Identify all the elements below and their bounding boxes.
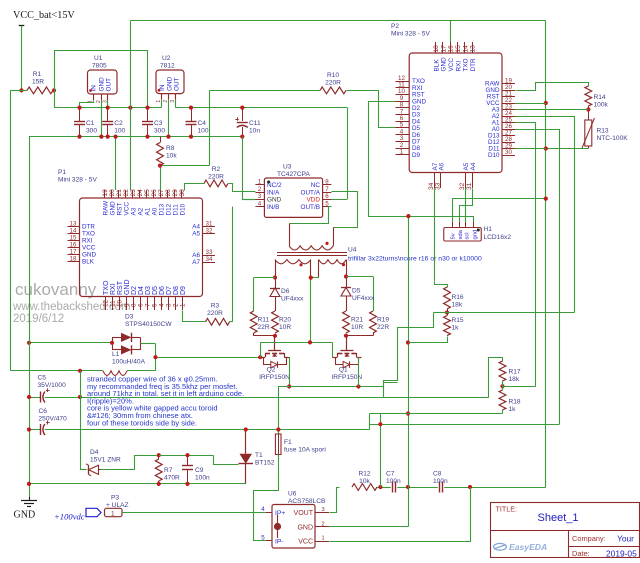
svg-text:8: 8 bbox=[325, 179, 329, 186]
wire divider mid left bbox=[434, 312, 448, 314]
wire D3 node to Q2 drain bbox=[156, 357, 261, 359]
svg-text:2: 2 bbox=[173, 303, 180, 307]
svg-text:C7: C7 bbox=[386, 471, 395, 478]
junction center-tap rail bbox=[308, 340, 312, 344]
svg-text:25: 25 bbox=[144, 189, 151, 197]
svg-text:STPS40150CW: STPS40150CW bbox=[125, 321, 172, 328]
svg-text:VCC: VCC bbox=[82, 245, 96, 252]
svg-text:R8: R8 bbox=[166, 145, 175, 152]
junction Q2 gate node bbox=[273, 334, 277, 338]
svg-text:C8: C8 bbox=[433, 471, 442, 478]
transformer U4 primary winding bbox=[289, 223, 333, 250]
svg-text:Date:: Date: bbox=[572, 549, 590, 558]
svg-text:D9: D9 bbox=[412, 152, 421, 159]
svg-text:1: 1 bbox=[321, 536, 324, 542]
capacitor C4 bbox=[186, 108, 209, 137]
svg-text:1: 1 bbox=[258, 179, 262, 186]
svg-text:2: 2 bbox=[258, 186, 262, 193]
svg-text:R12: R12 bbox=[358, 471, 370, 478]
title block company row bbox=[572, 534, 634, 544]
svg-text:300: 300 bbox=[86, 128, 97, 135]
title block date row bbox=[572, 549, 637, 559]
resistor R2 bbox=[204, 166, 228, 187]
svg-text:300: 300 bbox=[154, 128, 165, 135]
wire +100V bus bbox=[45, 429, 370, 431]
svg-text:OUT/A: OUT/A bbox=[300, 189, 320, 196]
wire output line y=487 bbox=[377, 487, 546, 489]
capacitor C11 (polarized) bbox=[235, 108, 261, 137]
wire ground line y=483.9 bbox=[29, 483, 246, 485]
svg-text:100n: 100n bbox=[433, 478, 448, 485]
note text block bbox=[87, 375, 244, 428]
svg-text:D9: D9 bbox=[180, 286, 187, 295]
resistor R3 bbox=[206, 303, 230, 326]
junction T1 anode bbox=[244, 427, 248, 431]
wire top rail to P2 VCC pin 16 bbox=[450, 21, 452, 42]
svg-text:17: 17 bbox=[70, 248, 77, 255]
svg-text:7: 7 bbox=[325, 186, 329, 193]
svg-text:220R: 220R bbox=[207, 310, 223, 317]
svg-text:10k: 10k bbox=[166, 153, 177, 160]
wire F1 to U6 IP- bbox=[254, 455, 279, 541]
junction R14 bottom / A3 bbox=[586, 107, 590, 111]
svg-text:DTR: DTR bbox=[470, 58, 477, 72]
thermistor R13 NTC-100K bbox=[579, 118, 629, 149]
wire ground bus y=136.6 bbox=[29, 136, 242, 138]
svg-text:32: 32 bbox=[206, 227, 213, 234]
svg-text:11: 11 bbox=[109, 300, 116, 307]
svg-text:100: 100 bbox=[198, 128, 209, 135]
svg-text:100k: 100k bbox=[594, 102, 609, 109]
svg-text:+ ULAZ: + ULAZ bbox=[106, 502, 129, 509]
svg-text:fuse 10A spori: fuse 10A spori bbox=[284, 447, 326, 454]
resistor R20 bbox=[272, 311, 292, 333]
wire P2 GND9 to LCD gnd bbox=[369, 102, 474, 217]
svg-text:C3: C3 bbox=[154, 120, 163, 127]
svg-text:23: 23 bbox=[130, 189, 137, 197]
wire to R11 top bbox=[254, 278, 276, 312]
wire R18 bottom bbox=[502, 410, 504, 414]
svg-text:7805: 7805 bbox=[92, 63, 107, 70]
svg-text:6: 6 bbox=[138, 303, 145, 307]
svg-text:13: 13 bbox=[470, 45, 477, 53]
junction ground bus x=191 bbox=[189, 135, 193, 139]
svg-text:8: 8 bbox=[130, 303, 137, 307]
wire R17-R18 bbox=[502, 381, 504, 390]
wire rail to Q1 drain bbox=[332, 342, 334, 357]
svg-text:R21: R21 bbox=[351, 317, 363, 324]
svg-text:GND: GND bbox=[441, 57, 448, 72]
svg-text:16: 16 bbox=[448, 45, 455, 53]
svg-text:D5: D5 bbox=[352, 288, 361, 295]
svg-text:GND: GND bbox=[14, 510, 36, 521]
svg-text:TXO: TXO bbox=[82, 231, 95, 238]
junction C7 right bbox=[406, 485, 410, 489]
svg-text:GND: GND bbox=[124, 279, 131, 295]
transistor Q1 IRFP150N bbox=[331, 336, 362, 381]
svg-text:RXI: RXI bbox=[82, 238, 93, 245]
svg-text:Sheet_1: Sheet_1 bbox=[538, 512, 579, 524]
svg-text:R10: R10 bbox=[327, 72, 339, 79]
wire gate line to T1 bbox=[159, 456, 239, 465]
svg-text:33: 33 bbox=[434, 182, 441, 190]
svg-text:14: 14 bbox=[462, 45, 469, 53]
junction D6 top bbox=[273, 275, 277, 279]
module P1 Mini 328 - 5V bbox=[58, 169, 215, 310]
wire R2 to P1 pin 30 bbox=[185, 184, 205, 191]
wire P1 D9 to R3 bbox=[183, 311, 206, 322]
svg-text:14: 14 bbox=[70, 227, 77, 234]
wire R15 bottom to rail bbox=[409, 337, 448, 343]
wire OUT/B to primary left bbox=[290, 207, 332, 224]
svg-text:OUT: OUT bbox=[174, 77, 181, 91]
svg-text:18: 18 bbox=[433, 45, 440, 53]
svg-text:C6: C6 bbox=[39, 408, 48, 415]
svg-text:UF4xxx: UF4xxx bbox=[281, 296, 304, 303]
diode D4 15V1 ZNR (zener) bbox=[80, 449, 121, 476]
svg-text:DTR: DTR bbox=[82, 224, 95, 231]
resistor R21 bbox=[343, 311, 364, 333]
svg-text:2019/6/12: 2019/6/12 bbox=[13, 313, 64, 325]
svg-text:RST: RST bbox=[116, 203, 123, 216]
wire Q2 source down bbox=[289, 357, 291, 387]
wire A1 row bbox=[515, 122, 536, 124]
junction Q2 source bbox=[287, 384, 291, 388]
svg-text:+100vdc: +100vdc bbox=[54, 512, 85, 522]
driver U3 TC427CPA bbox=[255, 164, 331, 218]
EasyEDA logo bbox=[494, 542, 548, 552]
svg-text:H1: H1 bbox=[484, 226, 493, 233]
junction Q2 drain bbox=[258, 355, 262, 359]
svg-text:trifillar 3x22turns\ncore r16: trifillar 3x22turns\ncore r16 or n30 or … bbox=[348, 256, 482, 263]
wire R2 to U3 IN/A bbox=[229, 184, 256, 192]
junction ground bus x=168.5 bbox=[166, 135, 170, 139]
resistor R1 bbox=[22, 71, 55, 94]
wire U1 GND to ground bus bbox=[101, 100, 103, 137]
wire L1 node rail down bbox=[80, 371, 82, 470]
junction rail/R18 line bbox=[406, 411, 410, 415]
wire sense jog bbox=[384, 383, 398, 398]
net name VCC_bat<15V bbox=[13, 10, 75, 21]
svg-text:7812: 7812 bbox=[160, 63, 175, 70]
junction C9 bottom bbox=[185, 482, 189, 486]
svg-text:10n: 10n bbox=[249, 128, 260, 135]
capacitor C9 bbox=[182, 455, 210, 484]
wire R3 to U3 IN/B rail bbox=[230, 207, 233, 322]
wire A7 column down bbox=[434, 188, 436, 285]
wire VCC rail right x=545.8 bbox=[545, 21, 547, 487]
svg-text:GND: GND bbox=[82, 252, 96, 259]
capacitor C7 bbox=[386, 471, 401, 493]
connector H1 LCD16x2 bbox=[444, 222, 512, 241]
svg-text:12: 12 bbox=[102, 299, 109, 307]
svg-text:U3: U3 bbox=[283, 164, 292, 171]
wire sense to R17 top bbox=[489, 358, 503, 398]
svg-text:R18: R18 bbox=[509, 399, 521, 406]
svg-text:D2: D2 bbox=[131, 286, 138, 295]
wire D4 to R7 top bbox=[101, 456, 157, 470]
junction Q1 gate node bbox=[344, 334, 348, 338]
module P2 Mini 328 - 5V bbox=[391, 23, 515, 190]
svg-text:GND: GND bbox=[109, 201, 116, 216]
junction ground rail bbox=[27, 482, 31, 486]
svg-text:C2: C2 bbox=[114, 120, 123, 127]
svg-text:IRFP150N: IRFP150N bbox=[331, 374, 362, 381]
inductor L1 100uH/40A bbox=[11, 351, 156, 375]
junction A0 line bbox=[378, 422, 382, 426]
wire center tap down bbox=[311, 278, 319, 343]
svg-text:TC427CPA: TC427CPA bbox=[277, 171, 310, 178]
svg-text:LCD16x2: LCD16x2 bbox=[484, 234, 512, 241]
svg-text:BLK: BLK bbox=[433, 59, 440, 72]
svg-text:U4: U4 bbox=[348, 247, 357, 254]
svg-text:100n: 100n bbox=[195, 474, 210, 481]
svg-text:A3: A3 bbox=[130, 207, 137, 215]
svg-text:OUT/B: OUT/B bbox=[300, 204, 320, 211]
svg-text:four of these toroids side by: four of these toroids side by side. bbox=[87, 418, 197, 427]
svg-text:A1: A1 bbox=[144, 207, 151, 215]
svg-text:33: 33 bbox=[206, 249, 213, 256]
svg-text:5: 5 bbox=[152, 303, 159, 307]
resistor R7 bbox=[155, 455, 180, 484]
svg-text:ACS758LCB: ACS758LCB bbox=[288, 498, 326, 505]
svg-text:R16: R16 bbox=[452, 294, 464, 301]
resistor R18 bbox=[499, 390, 521, 413]
transformer U4 core bbox=[277, 253, 347, 256]
title block TITLE label bbox=[496, 505, 518, 514]
svg-text:D3: D3 bbox=[125, 314, 134, 321]
junction ground bus x=101.4 bbox=[99, 135, 103, 139]
wire VCC22 row bbox=[515, 103, 546, 105]
svg-text:L1: L1 bbox=[112, 351, 120, 358]
svg-text:VCC: VCC bbox=[448, 58, 455, 72]
svg-text:NC: NC bbox=[311, 182, 321, 189]
svg-text:R20: R20 bbox=[279, 317, 291, 324]
svg-text:6: 6 bbox=[325, 193, 329, 200]
svg-text:IP-: IP- bbox=[275, 539, 284, 546]
svg-text:C9: C9 bbox=[195, 467, 204, 474]
svg-text:A0: A0 bbox=[151, 207, 158, 215]
svg-text:C4: C4 bbox=[198, 120, 207, 127]
svg-text:1: 1 bbox=[180, 303, 187, 307]
svg-text:P1: P1 bbox=[58, 169, 66, 176]
svg-text:BT152: BT152 bbox=[255, 460, 275, 467]
svg-text:A7: A7 bbox=[192, 259, 200, 266]
title block frame bbox=[491, 503, 640, 558]
capacitor C1 bbox=[74, 108, 97, 137]
svg-text:R7: R7 bbox=[164, 467, 173, 474]
svg-text:22R: 22R bbox=[377, 324, 389, 331]
svg-text:2: 2 bbox=[321, 521, 324, 527]
svg-text:1k: 1k bbox=[509, 406, 517, 413]
wire source stair up bbox=[384, 313, 434, 387]
svg-text:3: 3 bbox=[166, 303, 173, 307]
svg-text:A6: A6 bbox=[192, 252, 200, 259]
diode D6 UF4xxx bbox=[270, 278, 304, 312]
svg-text:RXI: RXI bbox=[455, 61, 462, 72]
junction Q1 source bbox=[356, 384, 360, 388]
svg-text:GND: GND bbox=[267, 197, 282, 204]
wire A0 row bbox=[515, 129, 560, 131]
junction C4 top bbox=[189, 106, 193, 110]
wire U6 VCC to output line bbox=[330, 488, 471, 542]
resistor R10 bbox=[320, 72, 346, 94]
junction C-row x=130.4 bbox=[128, 106, 132, 110]
junction D3/L1/Q2 bbox=[153, 355, 157, 359]
junction ground bus x=147.5 bbox=[145, 135, 149, 139]
svg-text:34: 34 bbox=[206, 256, 213, 263]
resistor R17 bbox=[499, 361, 521, 383]
wire A2 row bbox=[515, 116, 575, 118]
svg-text:22: 22 bbox=[123, 189, 130, 197]
regulator U2 7812 bbox=[156, 55, 184, 103]
svg-text:R17: R17 bbox=[509, 369, 521, 376]
junction L1 input bbox=[78, 369, 82, 373]
svg-text:BLK: BLK bbox=[82, 259, 95, 266]
svg-text:U6: U6 bbox=[288, 491, 297, 498]
junction R12 right bbox=[378, 485, 382, 489]
junction C-row x=147.5 bbox=[145, 106, 149, 110]
svg-text:U2: U2 bbox=[162, 55, 171, 62]
svg-text:Mini 328 - 5V: Mini 328 - 5V bbox=[391, 31, 430, 38]
wire divider mid to A1 bbox=[503, 123, 536, 387]
svg-text:15: 15 bbox=[70, 234, 77, 241]
svg-text:4: 4 bbox=[159, 303, 166, 307]
svg-text:GND: GND bbox=[167, 76, 174, 91]
svg-text:4: 4 bbox=[258, 200, 262, 207]
transformer U4 secondary left winding bbox=[275, 260, 311, 278]
svg-text:21: 21 bbox=[116, 189, 123, 197]
svg-text:19: 19 bbox=[102, 189, 109, 197]
svg-text:D11: D11 bbox=[172, 204, 179, 216]
wire to R16 top bbox=[435, 282, 448, 288]
junction C5 right bbox=[78, 395, 82, 399]
svg-text:IN/A: IN/A bbox=[267, 189, 280, 196]
svg-text:OUT: OUT bbox=[106, 78, 113, 92]
svg-text:RST: RST bbox=[117, 280, 124, 295]
svg-text:Q1: Q1 bbox=[339, 367, 348, 374]
svg-text:R15: R15 bbox=[452, 317, 464, 324]
svg-text:sda: sda bbox=[458, 229, 464, 239]
svg-text:A5: A5 bbox=[192, 231, 200, 238]
svg-text:470R: 470R bbox=[164, 474, 180, 481]
svg-text:18: 18 bbox=[70, 255, 77, 262]
junction C5 left bbox=[27, 395, 31, 399]
wire R14 to R13 bbox=[588, 106, 590, 120]
wire R10 to P2 D5 bbox=[347, 91, 396, 128]
wire ground rail x=408 bbox=[408, 216, 410, 527]
resistor R11 bbox=[250, 311, 270, 333]
resistor R16 bbox=[444, 287, 464, 309]
wire left rail x=10.6 bbox=[11, 90, 22, 370]
svg-text:27: 27 bbox=[158, 189, 165, 197]
junction C9 top bbox=[185, 453, 189, 457]
wire OUT/A to primary right bbox=[332, 192, 358, 228]
svg-text:250V/470: 250V/470 bbox=[39, 416, 68, 423]
svg-text:3: 3 bbox=[258, 193, 262, 200]
svg-text:3: 3 bbox=[321, 507, 324, 513]
wire to U3 GND bbox=[242, 199, 256, 201]
wire down to R12 node bbox=[380, 414, 382, 488]
wire A0 column down bbox=[559, 129, 561, 424]
wire rail to P1 pin 23 bbox=[130, 108, 132, 190]
wire LCD gnd lead bbox=[473, 216, 475, 222]
transformer U4 secondary right winding bbox=[319, 260, 347, 278]
svg-text:R3: R3 bbox=[211, 303, 220, 310]
wire U2 IN down bbox=[161, 100, 163, 108]
wire R8 to R10 row bbox=[160, 90, 320, 165]
svg-text:U1: U1 bbox=[94, 55, 103, 62]
resistor R15 bbox=[444, 309, 464, 336]
svg-text:10R: 10R bbox=[351, 324, 363, 331]
svg-text:UF4xxx: UF4xxx bbox=[352, 295, 375, 302]
svg-text:EasyEDA: EasyEDA bbox=[509, 542, 547, 552]
junction F1 top bbox=[276, 427, 280, 431]
svg-text:TXO: TXO bbox=[103, 280, 110, 295]
svg-text:100n: 100n bbox=[386, 478, 401, 485]
wire drain rail bbox=[260, 342, 332, 357]
svg-text:26: 26 bbox=[151, 189, 158, 197]
svg-text:35V/1000: 35V/1000 bbox=[38, 382, 67, 389]
svg-text:10k: 10k bbox=[359, 478, 370, 485]
capacitor C2 bbox=[102, 108, 125, 137]
junction divider mid R16/R15 bbox=[445, 310, 449, 314]
junction R7 top bbox=[157, 453, 161, 457]
svg-text:TITLE:: TITLE: bbox=[496, 505, 518, 514]
svg-text:220R: 220R bbox=[325, 80, 341, 87]
junction C11 top bbox=[240, 106, 244, 110]
junction R15 bottom rail bbox=[406, 340, 410, 344]
svg-text:5: 5 bbox=[261, 535, 265, 542]
junction R8 bottom bbox=[158, 164, 162, 168]
junction C11 bottom bbox=[240, 135, 244, 139]
svg-text:A6: A6 bbox=[438, 162, 445, 170]
svg-text:GND: GND bbox=[99, 77, 106, 92]
wire rail to D3 bbox=[29, 342, 112, 344]
junction rail VCC22 row bbox=[544, 101, 548, 105]
svg-text:D7: D7 bbox=[166, 286, 173, 295]
wire R13 bottom to rail bbox=[546, 146, 589, 149]
junction divider mid R17/R18 bbox=[500, 384, 504, 388]
svg-text:100uH/40A: 100uH/40A bbox=[112, 359, 146, 366]
svg-text:9: 9 bbox=[123, 303, 130, 307]
connector P3 +ULAZ bbox=[54, 495, 266, 522]
title block sheet name bbox=[538, 512, 579, 524]
resistor R14 bbox=[585, 86, 609, 109]
wire R11 bottom to gate node bbox=[254, 333, 276, 336]
svg-text:D13: D13 bbox=[158, 203, 165, 215]
diode D5 UF4xxx bbox=[341, 277, 375, 312]
svg-text:D4: D4 bbox=[138, 286, 145, 295]
svg-text:R14: R14 bbox=[594, 94, 606, 101]
svg-text:A2: A2 bbox=[137, 207, 144, 215]
wire source bus to F1 bbox=[279, 387, 384, 430]
svg-text:1k: 1k bbox=[452, 325, 460, 332]
wire U1 IN to C1 node bbox=[80, 101, 94, 108]
svg-text:T1: T1 bbox=[255, 452, 263, 459]
wire R8 node to P1 pin 27 bbox=[160, 166, 162, 190]
resistor R12 bbox=[352, 471, 377, 491]
resistor R8 bbox=[157, 137, 178, 166]
junction R7 bottom bbox=[157, 482, 161, 486]
wire D11 row bbox=[515, 148, 546, 150]
svg-text:1: 1 bbox=[111, 511, 115, 518]
svg-text:A4: A4 bbox=[192, 224, 200, 231]
wire LCD scl to A5 bbox=[465, 188, 467, 222]
svg-text:IP+: IP+ bbox=[275, 510, 285, 517]
wire U2 GND to ground bus bbox=[168, 100, 170, 137]
wire A0 line y=424.2 bbox=[370, 424, 560, 426]
